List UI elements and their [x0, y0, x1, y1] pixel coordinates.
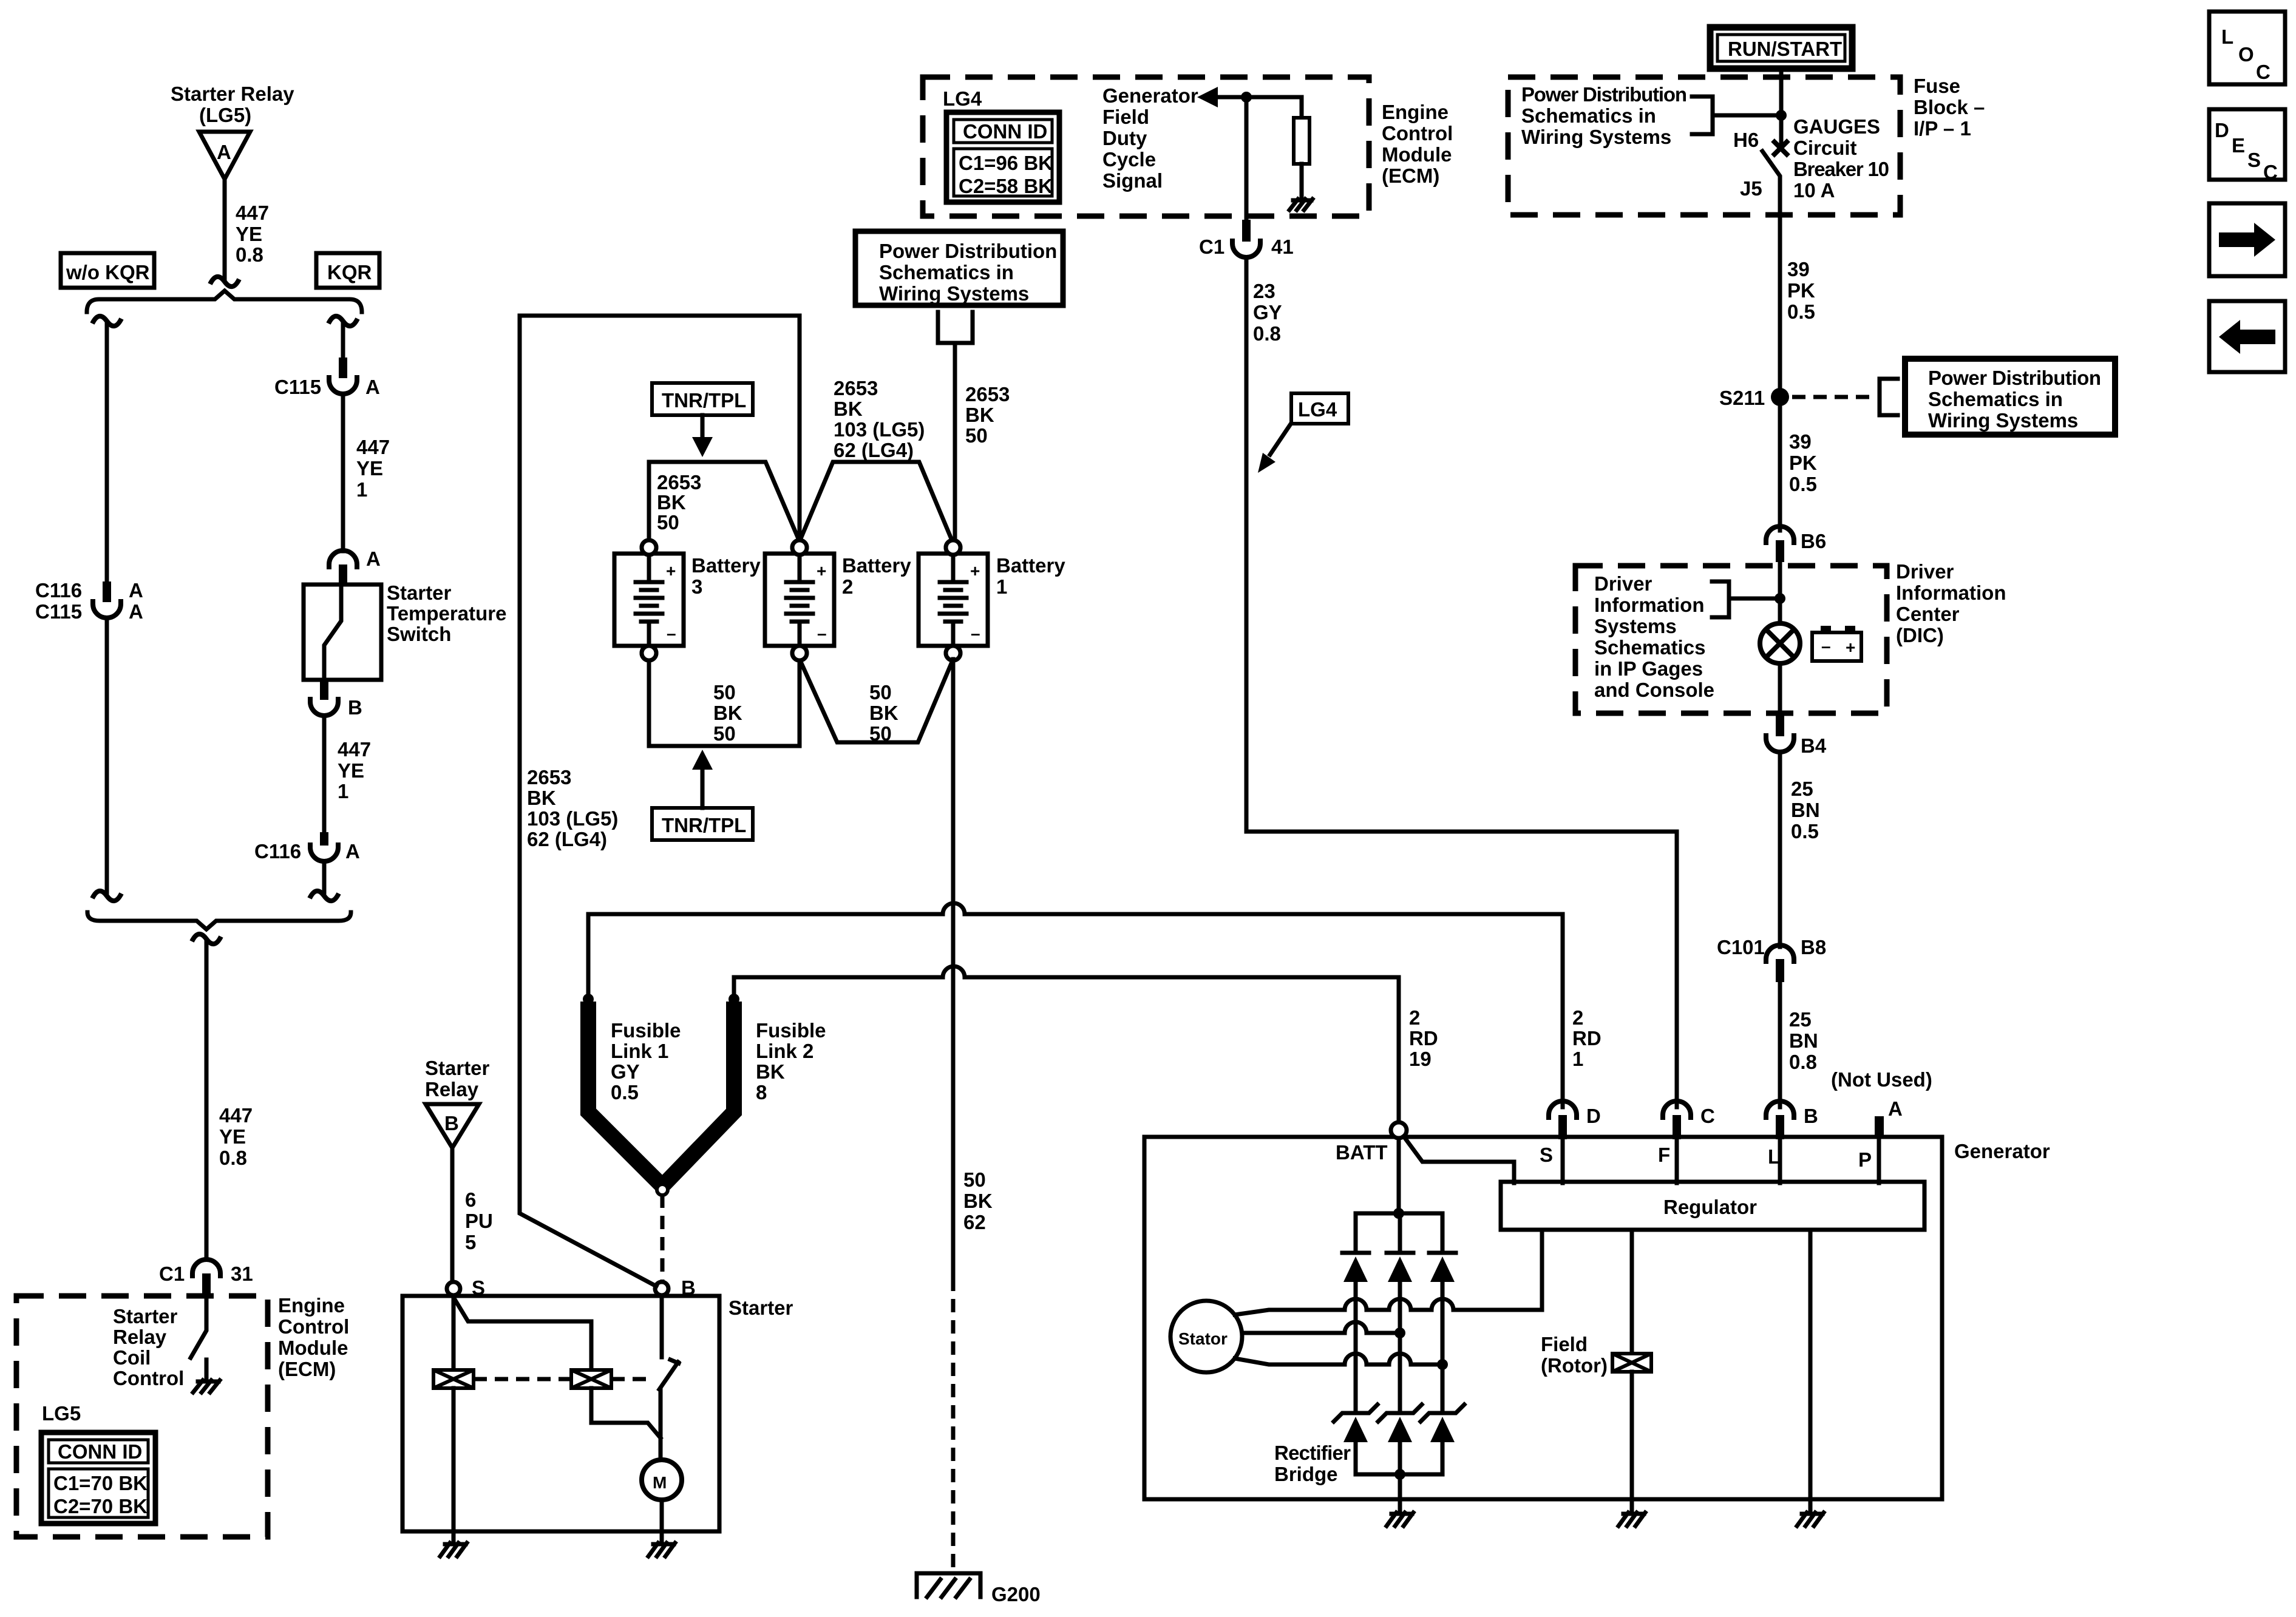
L pin wire to regulator — [1778, 1139, 1782, 1183]
svg-text:2: 2 — [1572, 1006, 1583, 1029]
svg-text:103 (LG5): 103 (LG5) — [834, 418, 925, 441]
next-page arrow box — [2209, 203, 2285, 276]
DIC wire — [1778, 562, 1782, 623]
wire below C116 — [322, 861, 327, 892]
svg-text:A: A — [217, 141, 231, 163]
svg-text:Breaker 10: Breaker 10 — [1793, 158, 1889, 180]
svg-text:Bridge: Bridge — [1274, 1463, 1338, 1485]
svg-text:C2=70 BK: C2=70 BK — [53, 1495, 148, 1517]
wire H2: fusible link2 to BATT (2 RD 19) — [734, 977, 1399, 1120]
CONN ID table (LG4) — [946, 112, 1059, 202]
svg-text:BK: BK — [965, 404, 994, 426]
svg-text:I/P – 1: I/P – 1 — [1914, 117, 1971, 140]
wire 447 YE 0.8 to ECM — [205, 940, 209, 1259]
svg-text:LG4: LG4 — [943, 87, 982, 110]
wire 447 YE 1 — [322, 716, 327, 832]
svg-text:2653: 2653 — [965, 383, 1010, 405]
svg-text:1: 1 — [1572, 1048, 1583, 1070]
regulator box — [1501, 1182, 1924, 1230]
svg-text:Schematics in: Schematics in — [1928, 388, 2063, 410]
starter relay triangle B — [426, 1104, 479, 1148]
starter S internal wire to coils — [452, 1295, 456, 1370]
svg-text:YE: YE — [219, 1125, 246, 1148]
avalanche diode 2 lower — [1378, 1405, 1422, 1474]
svg-text:Temperature: Temperature — [387, 602, 506, 625]
tag box KQR — [316, 253, 379, 288]
svg-text:Control: Control — [278, 1315, 349, 1338]
bracket to wire — [1692, 97, 1713, 134]
svg-text:H6: H6 — [1733, 129, 1759, 151]
svg-text:50: 50 — [713, 722, 736, 745]
svg-text:Battery: Battery — [691, 554, 761, 577]
terminal C dome — [1663, 1101, 1691, 1120]
bracket under power distribution box — [938, 312, 973, 343]
svg-text:P: P — [1858, 1148, 1872, 1171]
svg-text:–: – — [667, 624, 676, 643]
svg-text:Systems: Systems — [1594, 615, 1677, 637]
svg-text:C116: C116 — [35, 579, 82, 602]
starter temperature switch box — [304, 585, 381, 680]
svg-text:LG4: LG4 — [1298, 398, 1337, 421]
battery3- to battery2- wire 50 BK 50 — [649, 659, 800, 746]
svg-text:19: 19 — [1409, 1048, 1432, 1070]
svg-text:447: 447 — [219, 1104, 253, 1127]
fusible link junction circle — [657, 1184, 668, 1195]
svg-text:B6: B6 — [1801, 530, 1826, 552]
junction dot fusible link 1 — [583, 994, 594, 1005]
indicator lamp — [1760, 623, 1800, 663]
connector C116 pin — [320, 832, 328, 846]
D pin — [1558, 1115, 1567, 1139]
svg-text:Rectifier: Rectifier — [1274, 1442, 1351, 1464]
svg-text:0.8: 0.8 — [1253, 322, 1281, 345]
svg-text:+: + — [1846, 638, 1855, 657]
power distribution box (right) — [1905, 359, 2115, 435]
svg-text:Link 1: Link 1 — [611, 1040, 668, 1062]
svg-text:C: C — [1700, 1105, 1715, 1127]
svg-text:(LG5): (LG5) — [199, 104, 251, 126]
svg-text:(ECM): (ECM) — [278, 1358, 336, 1380]
svg-text:YE: YE — [236, 223, 262, 245]
battery terminal circles (redrawn over wires) — [642, 540, 960, 660]
svg-text:BN: BN — [1791, 799, 1820, 821]
svg-text:447: 447 — [338, 738, 371, 761]
TNR/TPL tag (bottom) — [652, 808, 753, 840]
svg-text:–: – — [817, 624, 827, 643]
starter relay coil control switch — [191, 1295, 206, 1358]
svg-text:B: B — [444, 1112, 459, 1134]
w/o KQR branch wire — [105, 322, 109, 581]
svg-text:BK: BK — [713, 702, 742, 724]
BATT terminal circle — [1391, 1122, 1407, 1138]
svg-text:Starter: Starter — [425, 1057, 490, 1079]
ground G200 — [917, 1573, 980, 1597]
starter motor M — [642, 1460, 682, 1500]
starter box — [402, 1296, 719, 1531]
svg-text:Engine: Engine — [1382, 101, 1449, 123]
svg-text:BK: BK — [756, 1060, 785, 1083]
fuse block dashed box — [1508, 77, 1900, 215]
svg-text:Regulator: Regulator — [1663, 1196, 1757, 1218]
svg-text:50: 50 — [657, 511, 679, 534]
wire blade to motor — [659, 1389, 663, 1460]
svg-text:(Rotor): (Rotor) — [1541, 1354, 1608, 1377]
BATT slant wire to regulator — [1404, 1136, 1514, 1183]
connector C101 B8 dome — [1766, 945, 1794, 964]
w/o KQR branch squiggle — [92, 316, 121, 326]
svg-text:1: 1 — [356, 478, 367, 501]
svg-text:C115: C115 — [35, 600, 82, 623]
avalanche diode 1 lower — [1334, 1405, 1377, 1474]
fusible link 1 (thick) — [588, 1002, 661, 1184]
svg-text:Wiring Systems: Wiring Systems — [1928, 409, 2078, 432]
LG4 tag box with arrow — [1258, 393, 1348, 473]
svg-text:Center: Center — [1896, 603, 1960, 625]
svg-text:Generator: Generator — [1102, 84, 1198, 107]
svg-text:Starter Relay: Starter Relay — [171, 83, 294, 105]
svg-text:Module: Module — [278, 1337, 348, 1359]
svg-text:(ECM): (ECM) — [1382, 164, 1439, 187]
internal wire to resistor — [1246, 97, 1302, 118]
svg-text:0.5: 0.5 — [1787, 300, 1815, 323]
svg-text:A: A — [129, 579, 143, 602]
field (rotor) coil — [1612, 1354, 1651, 1372]
junction dot fusible link 2 — [729, 994, 739, 1005]
rectifier leg 2 upper — [1398, 1213, 1402, 1253]
svg-text:50: 50 — [869, 681, 892, 703]
diode 3 upper — [1429, 1253, 1456, 1411]
svg-text:A: A — [366, 547, 381, 570]
option brace (bottom) — [87, 912, 351, 929]
svg-text:Control: Control — [1382, 122, 1453, 144]
svg-text:A: A — [129, 600, 143, 623]
regulator ground wire — [1809, 1230, 1813, 1511]
svg-text:RD: RD — [1409, 1027, 1438, 1049]
svg-text:2: 2 — [842, 575, 853, 598]
ground (ECM LG4 internal) — [1289, 199, 1313, 210]
svg-text:103 (LG5): 103 (LG5) — [527, 807, 618, 830]
junction dot — [1241, 92, 1252, 103]
svg-text:Starter: Starter — [729, 1297, 793, 1319]
svg-text:6: 6 — [465, 1188, 476, 1211]
rectifier bottom bus — [1356, 1473, 1442, 1477]
wire battery2+ to battery1+ (2653 BK 103/62) — [800, 462, 952, 541]
svg-text:1: 1 — [996, 575, 1007, 598]
svg-text:YE: YE — [338, 759, 364, 782]
svg-text:62 (LG4): 62 (LG4) — [527, 828, 607, 850]
svg-text:PK: PK — [1789, 452, 1817, 474]
svg-text:Battery: Battery — [842, 554, 911, 577]
svg-text:25: 25 — [1789, 1008, 1812, 1031]
svg-text:Schematics: Schematics — [1594, 636, 1705, 659]
svg-text:23: 23 — [1253, 280, 1275, 302]
svg-text:BK: BK — [963, 1190, 993, 1212]
junction dot — [1776, 110, 1787, 121]
svg-text:Wiring Systems: Wiring Systems — [879, 282, 1029, 305]
ECM LG4 dashed box — [923, 77, 1369, 216]
svg-text:5: 5 — [465, 1231, 476, 1253]
motor to box bottom wire — [660, 1500, 664, 1531]
ground under regulator — [1797, 1513, 1824, 1526]
svg-text:BATT: BATT — [1336, 1141, 1388, 1164]
svg-text:Battery: Battery — [996, 554, 1065, 577]
svg-text:0.8: 0.8 — [1789, 1051, 1817, 1073]
svg-text:BN: BN — [1789, 1029, 1818, 1052]
svg-text:39: 39 — [1789, 430, 1812, 453]
terminal B circle — [655, 1282, 668, 1295]
stator phase 3 wire — [1235, 1358, 1442, 1364]
svg-text:C101: C101 — [1717, 936, 1765, 958]
RUN/START tag — [1710, 27, 1852, 69]
battery 2 — [765, 540, 834, 660]
junction dot rectifier bottom — [1394, 1469, 1405, 1480]
connector C1 31 dome — [192, 1259, 220, 1278]
connector C115 cup (KQR branch) — [329, 375, 357, 394]
stator phase 1 wire to regulator — [1235, 1230, 1542, 1315]
terminal A pin (not used) — [1875, 1116, 1884, 1138]
svg-text:GAUGES: GAUGES — [1793, 115, 1880, 138]
circuit breaker blade — [1762, 151, 1780, 215]
rectifier ground wire — [1398, 1474, 1402, 1511]
LOC nav box — [2209, 12, 2285, 84]
wire 25 BN 0.5 — [1778, 752, 1782, 947]
svg-text:Fuse: Fuse — [1914, 75, 1960, 97]
fusible link 2 (thick) — [664, 1002, 734, 1184]
svg-text:Driver: Driver — [1594, 572, 1652, 595]
svg-text:E: E — [2232, 134, 2245, 157]
svg-text:S: S — [1540, 1144, 1553, 1166]
svg-text:w/o KQR: w/o KQR — [66, 261, 150, 283]
svg-text:A: A — [365, 376, 380, 398]
svg-text:3: 3 — [691, 575, 702, 598]
svg-text:S211: S211 — [1719, 387, 1765, 409]
svg-text:2653: 2653 — [527, 766, 571, 788]
svg-text:C2=58 BK: C2=58 BK — [959, 175, 1053, 197]
svg-text:O: O — [2238, 43, 2254, 66]
svg-text:C: C — [2256, 61, 2271, 83]
svg-text:C1: C1 — [1199, 236, 1224, 258]
splice squiggle below brace — [192, 934, 221, 944]
wire H1: fusible link1 to D terminal (2 RD 1) — [588, 914, 1563, 1107]
junction dot — [1775, 593, 1785, 604]
connector C115 cup (left branch) — [93, 599, 121, 618]
battery2- to battery1- wire 50 BK 50 — [800, 659, 953, 742]
field rotor wire from regulator — [1630, 1230, 1634, 1354]
svg-text:Power Distribution: Power Distribution — [1928, 367, 2101, 389]
svg-text:–: – — [971, 624, 980, 643]
svg-text:50: 50 — [963, 1168, 986, 1191]
connector B6 dome — [1766, 526, 1794, 545]
svg-text:+: + — [970, 561, 980, 580]
svg-text:PU: PU — [465, 1210, 493, 1232]
circuit breaker contact x — [1773, 140, 1788, 156]
svg-text:in IP Gages: in IP Gages — [1594, 657, 1703, 680]
generator box — [1144, 1137, 1942, 1499]
svg-text:L: L — [2221, 25, 2233, 48]
svg-text:Control: Control — [113, 1367, 184, 1389]
dashed wire to starter B — [661, 1195, 665, 1281]
svg-text:Field: Field — [1102, 106, 1149, 128]
svg-text:Duty: Duty — [1102, 127, 1147, 149]
svg-text:A: A — [1888, 1097, 1903, 1120]
svg-text:C116: C116 — [254, 840, 301, 863]
svg-text:62 (LG4): 62 (LG4) — [834, 439, 914, 461]
svg-text:Starter: Starter — [387, 581, 452, 604]
svg-text:Schematics in: Schematics in — [879, 261, 1014, 283]
starter relay triangle A — [199, 132, 250, 179]
svg-text:C1=70 BK: C1=70 BK — [53, 1472, 148, 1494]
battery telltale icon — [1812, 626, 1861, 661]
svg-text:Field: Field — [1541, 1333, 1588, 1355]
TNR/TPL tag (top) — [652, 383, 753, 415]
temp switch blade — [324, 585, 341, 680]
svg-text:J5: J5 — [1740, 177, 1762, 200]
svg-text:2653: 2653 — [834, 377, 878, 399]
svg-text:50: 50 — [965, 424, 988, 447]
wire 23 GY 0.8 — [1246, 257, 1677, 1107]
ground under starter motor — [648, 1531, 675, 1556]
svg-text:Module: Module — [1382, 143, 1452, 166]
P pin wire to regulator — [1877, 1138, 1881, 1183]
svg-text:+: + — [666, 561, 676, 580]
dashed segment of 50 BK 62 — [951, 1278, 956, 1572]
battery 1 — [919, 540, 988, 660]
svg-text:Fusible: Fusible — [756, 1019, 826, 1042]
ECM LG5 dashed box — [16, 1296, 268, 1537]
svg-text:Switch: Switch — [387, 623, 451, 645]
DESC nav box — [2209, 109, 2285, 183]
rectifier top bus — [1356, 1212, 1442, 1216]
connector C116 cup — [310, 842, 338, 861]
ground under field — [1618, 1513, 1645, 1526]
wire 6 PU 5 — [450, 1148, 455, 1282]
wire 39 PK 0.5 — [1778, 215, 1782, 397]
temp switch bottom pin — [320, 680, 328, 700]
ground (ECM internal) — [193, 1374, 220, 1392]
KQR branch bottom squiggle — [310, 891, 339, 901]
svg-text:39: 39 — [1787, 258, 1810, 280]
temp switch top pin — [339, 564, 347, 585]
svg-text:Relay: Relay — [113, 1326, 167, 1348]
coil1 to box bottom wire — [452, 1388, 456, 1531]
starter pull-in coil — [433, 1370, 474, 1388]
option brace (top) — [87, 291, 362, 312]
DIC dashed box — [1575, 566, 1887, 713]
ground under rectifier — [1387, 1513, 1413, 1526]
stator phase 2 wire — [1242, 1331, 1400, 1335]
ground under starter coil — [440, 1531, 467, 1556]
resistor (ECM pull-up) — [1294, 118, 1309, 164]
svg-text:31: 31 — [231, 1263, 253, 1285]
loop wire 2653 BK to starter B — [520, 316, 800, 1286]
svg-text:GY: GY — [1253, 301, 1282, 324]
svg-text:CONN ID: CONN ID — [963, 120, 1047, 143]
starter solenoid contact blade — [660, 1295, 664, 1357]
rectifier leg 3 upper — [1441, 1213, 1445, 1253]
svg-text:Link 2: Link 2 — [756, 1040, 813, 1062]
svg-text:447: 447 — [356, 436, 390, 458]
CONN ID table (LG5) — [41, 1432, 155, 1524]
svg-text:G200: G200 — [991, 1583, 1041, 1605]
svg-text:GY: GY — [611, 1060, 640, 1083]
svg-text:KQR: KQR — [327, 261, 372, 283]
svg-text:(DIC): (DIC) — [1896, 624, 1944, 646]
svg-text:YE: YE — [356, 457, 383, 480]
wire battery3+ to battery2+ (2653 BK 50) — [649, 462, 800, 543]
wire 39 PK 0.5 below S211 — [1778, 397, 1782, 531]
svg-text:62: 62 — [963, 1211, 986, 1233]
rectifier leg 1 upper — [1354, 1213, 1358, 1253]
svg-text:50: 50 — [869, 722, 892, 745]
KQR branch wire — [341, 322, 345, 358]
left branch bottom squiggle — [92, 891, 121, 901]
svg-text:B: B — [348, 696, 362, 719]
svg-text:10 A: 10 A — [1793, 179, 1835, 202]
bracket — [1880, 379, 1898, 415]
wire lamp to B4 — [1778, 663, 1782, 716]
svg-text:BK: BK — [869, 702, 898, 724]
B6 pin — [1776, 540, 1784, 562]
svg-text:D: D — [2215, 119, 2229, 141]
coil2 to motor wire — [591, 1388, 661, 1438]
svg-text:BK: BK — [834, 398, 863, 420]
svg-text:50: 50 — [713, 681, 736, 703]
C1 41 pin — [1242, 220, 1251, 242]
svg-text:Cycle: Cycle — [1102, 148, 1156, 171]
splice S211 — [1771, 388, 1789, 406]
svg-text:Information: Information — [1896, 581, 2006, 604]
svg-text:RD: RD — [1572, 1027, 1601, 1049]
B8 pin — [1776, 959, 1784, 982]
svg-text:Circuit: Circuit — [1793, 137, 1857, 159]
wire 447 YE 1 upper — [341, 394, 345, 551]
DIC bracket — [1712, 581, 1729, 617]
svg-text:C1: C1 — [159, 1263, 185, 1285]
svg-text:C115: C115 — [274, 376, 321, 398]
C1 pin — [202, 1273, 211, 1295]
splice squiggle above brace — [210, 277, 239, 286]
svg-text:TNR/TPL: TNR/TPL — [662, 389, 746, 412]
svg-text:0.8: 0.8 — [219, 1147, 247, 1169]
svg-text:RUN/START: RUN/START — [1728, 38, 1842, 60]
power distribution box (middle) — [855, 231, 1063, 305]
svg-text:Engine: Engine — [278, 1294, 345, 1317]
svg-text:and Console: and Console — [1594, 679, 1714, 701]
stator — [1170, 1301, 1242, 1372]
connector C115 pin (KQR branch) — [339, 358, 347, 378]
svg-text:Wiring Systems: Wiring Systems — [1521, 126, 1671, 148]
svg-text:41: 41 — [1271, 236, 1294, 258]
left branch lower wire — [105, 618, 109, 892]
wire 25 BN 0.8 — [1778, 981, 1782, 1107]
avalanche diode 3 lower — [1421, 1405, 1464, 1474]
F pin wire to regulator — [1675, 1139, 1679, 1183]
svg-text:M: M — [653, 1473, 667, 1492]
terminal S circle — [447, 1282, 460, 1295]
wire from dot down to C1 41 — [1245, 97, 1249, 220]
tag box w/o KQR — [61, 253, 154, 288]
mechanical link (dashed) — [474, 1377, 571, 1381]
svg-text:Fusible: Fusible — [611, 1019, 681, 1042]
feed wire 2653 BK 50 to battery1+ — [953, 343, 957, 540]
arrow from TNR/TPL down — [701, 415, 705, 438]
svg-text:Generator: Generator — [1954, 1140, 2050, 1162]
svg-text:LG5: LG5 — [42, 1402, 81, 1425]
svg-text:D: D — [1586, 1105, 1601, 1127]
terminal D dome — [1549, 1101, 1577, 1120]
junction dot rectifier top — [1393, 1208, 1404, 1219]
diode 2 upper — [1387, 1253, 1413, 1411]
